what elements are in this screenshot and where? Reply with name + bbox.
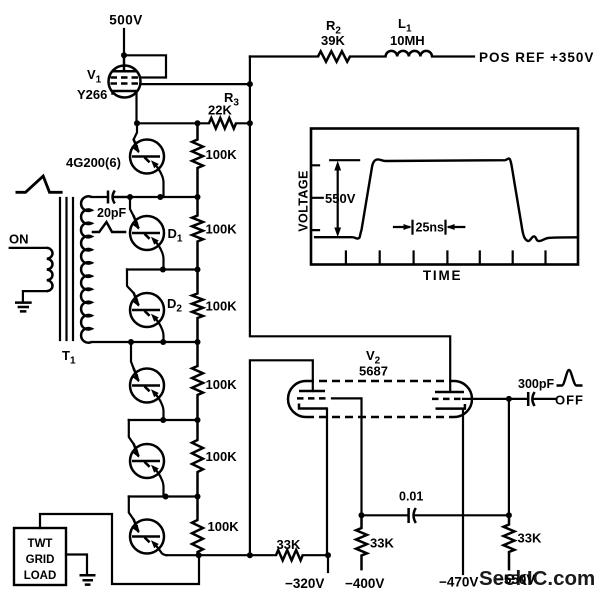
resistor 100K no.2 [192,197,203,270]
node rail-resistor bus junction [196,552,202,558]
node rung6-resistor bus junction [195,494,201,500]
tube V2 right plate [435,391,464,394]
wire right cathode to -470V [462,409,464,574]
node rung3-D1 collector junction [160,267,166,273]
node 0.01 left dot [359,512,365,518]
svg-text:100K: 100K [208,519,240,534]
node 300pF junction dot [506,396,512,402]
svg-text:33K: 33K [518,531,542,546]
svg-text:TWT: TWT [28,538,53,550]
resistor R3 [209,118,236,129]
wire TWT box to ground [66,555,87,576]
transformer T1 core [60,198,73,340]
wire rung3 [127,268,198,270]
tube V1 grid row 1 [111,76,140,79]
tube V2 left plate [299,390,325,393]
resistor R2 [318,51,350,61]
capacitor 20pF [108,191,115,204]
svg-text:22K: 22K [208,103,232,118]
annotation 25ns arrows [394,226,409,228]
wire main bus A (V1 output to V2 right plate) [250,57,450,392]
node rung4-Q4 emitter junction [128,339,134,345]
tube V2 envelope left cap [288,381,306,417]
transistor D2 emitter lead [127,270,134,294]
transistor D1 emitter lead [130,197,134,216]
wire Q5 collector to rung6 [156,470,164,497]
waveform icon input sawtooth [16,176,63,192]
svg-text:4G200(6): 4G200(6) [66,155,121,170]
wire TWT load loop [40,514,199,584]
wire 300pF node down to 0.01 node [508,399,510,515]
scope waveform trace [314,159,578,241]
tube V1 cathode [113,91,137,95]
node rung2-D1 emitter junction [127,194,133,200]
box TWT GRID LOAD [14,528,66,585]
resistor 100K no.3 [192,270,203,343]
svg-text:100K: 100K [206,299,238,314]
transistor Q5 [130,444,164,478]
node rung5-resistor bus junction [195,417,201,423]
svg-text:550V: 550V [325,191,356,206]
wire L1 to POS REF [432,55,474,57]
node rung5-Q4 collector junction [160,417,166,423]
wire Q6 collector to output rail [156,545,168,555]
svg-text:100K: 100K [206,377,238,392]
wire rung6 [129,495,198,497]
svg-text:33K: 33K [277,537,301,552]
svg-text:Y266: Y266 [77,87,107,102]
transformer T1 secondary winding [81,196,92,342]
svg-text:20pF: 20pF [97,206,127,220]
tube V2 left cathode [299,404,327,409]
resistor 100K no.5 [192,420,203,497]
transistor D1 [130,216,164,250]
node 0.01 right dot [506,512,512,518]
wire rail to -320V stub [303,554,328,556]
transistor Q1 4G200 emitter lead [134,123,137,139]
svg-text:5687: 5687 [359,364,388,379]
transistor D2 [130,293,164,327]
transistor Q6 emitter lead [129,497,134,520]
node rung6-Q5 collector junction [163,494,169,500]
tube V2 envelope dashed bottom [306,416,454,419]
svg-text:OFF: OFF [555,393,584,408]
svg-text:39K: 39K [321,33,345,48]
tube V1 envelope [109,66,141,98]
scope inset box [311,129,578,265]
node plate junction dot [121,52,127,58]
waveform icon 20pF sawtooth [92,222,127,232]
node rung4-D2 collector junction [160,339,166,345]
wire rung2 [115,196,198,198]
svg-text:SeekIC.com: SeekIC.com [479,567,595,590]
svg-text:TIME: TIME [423,268,462,283]
svg-text:100K: 100K [206,449,238,464]
transistor Q6 [130,520,164,554]
wire left grid lead [332,398,362,515]
svg-text:VOLTAGE: VOLTAGE [297,170,311,231]
tube V2 right grid [432,398,462,401]
wire rung1 right segment [236,122,250,124]
wire 20pF to rung2 [115,196,130,198]
transistor Q4 emitter lead [131,342,134,369]
wire output rail [166,554,276,556]
wire 300pF to OFF [535,398,556,400]
svg-text:LOAD: LOAD [24,570,57,582]
annotation 550V top reference bar [330,159,359,161]
wire top feed to R2 [250,55,318,57]
node rung1-resbus dot [195,120,201,126]
svg-text:−400V: −400V [345,576,384,591]
wire 500V lead down to plate node [123,29,125,55]
wire 0.01 line left [362,514,409,516]
tube V2 left grid [297,397,328,400]
wire rung4 [92,341,198,343]
node rung3-resistor bus junction [195,267,201,273]
ground T1 primary [15,303,32,312]
wire plate-to-grid1 loop [124,55,166,77]
wire left cathode to -320V rail [326,409,328,556]
svg-text:GRID: GRID [26,554,55,566]
wire primary bottom to ground [23,291,47,302]
tube V1 grid row 2 [111,82,140,85]
svg-text:300pF: 300pF [518,377,554,391]
resistor 33K rail [276,550,303,560]
wire ON input [10,247,47,249]
node cathode junction dot [134,120,140,126]
wire R2 to L1 [350,55,386,57]
wire left plate to rail (elbow) [250,360,313,555]
tube V2 right cathode [436,404,465,409]
svg-text:100K: 100K [206,147,238,162]
wire V1 grid2 to bus [140,83,250,85]
svg-text:0.01: 0.01 [399,490,423,504]
wire 0.01 line right [416,514,509,516]
svg-text:33K: 33K [370,536,394,551]
svg-text:25ns: 25ns [416,221,445,235]
svg-text:10MH: 10MH [390,33,425,48]
transformer T1 primary winding [47,248,53,291]
resistor 100K no.4 [192,342,203,420]
capacitor 0.01 [409,508,416,523]
scope bottom axis ticks [346,252,546,264]
annotation 550V arrow [337,167,339,231]
svg-text:500V: 500V [109,13,143,28]
wire Q1 collector to rung2 [156,165,164,197]
wire rung5 [129,419,198,421]
wire Q4 collector to rung5 [156,394,164,420]
svg-text:−470V: −470V [439,575,478,590]
svg-text:POS REF +350V: POS REF +350V [479,50,594,65]
resistor 33K right [504,515,515,570]
wire right grid lead to 300pF node [463,398,528,400]
wire secondary top to 20pF [92,196,109,198]
tube V1 plate [113,55,136,71]
scope left axis ticks [312,165,323,230]
inductor L1 [386,51,432,57]
tube V2 envelope dashed top [306,380,454,383]
wire V1 cathode lead down [135,91,137,123]
node rail-V2 left plate junction [247,552,253,558]
capacitor 300pF [528,392,534,406]
svg-text:ON: ON [9,232,29,247]
transistor Q5 emitter lead [129,420,134,444]
node grid2-bus junction dot [247,81,253,87]
node rung2-Q1 collector junction [157,194,163,200]
resistor 33K left [356,515,367,570]
tube V2 envelope right cap [454,381,472,417]
waveform icon OFF pulse [557,370,583,386]
ground TWT [80,575,96,584]
svg-text:100K: 100K [206,222,238,237]
resistor 100K no.1 [192,123,203,197]
svg-text:−320V: −320V [285,576,324,591]
wire D1 collector to rung3 [156,242,164,270]
resistor 100K no.6 [192,497,203,556]
wire D2 collector to rung4 [156,319,164,343]
node rung2-resistor bus junction [195,194,201,200]
transistor Q1 4G200(6) [130,140,164,174]
node rung4-resistor bus junction [195,339,201,345]
transistor Q4 [130,369,164,403]
wire rung1 left segment [137,122,209,124]
node rung1-bus dot [247,120,253,126]
